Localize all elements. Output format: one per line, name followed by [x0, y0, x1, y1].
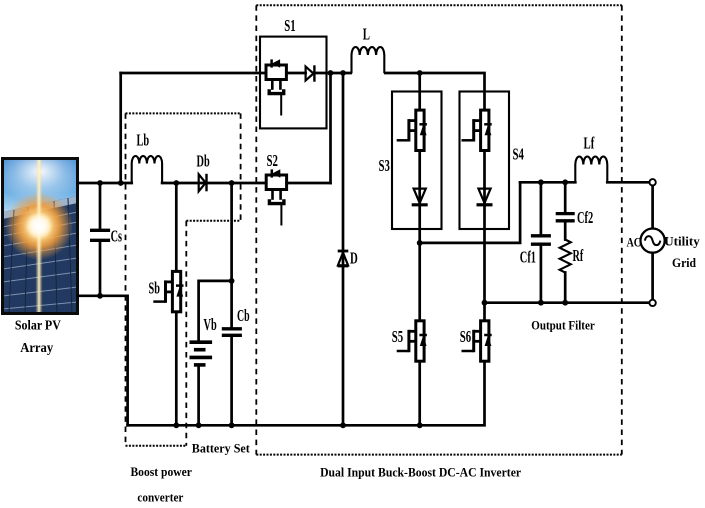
wire Cf2/Rf column [564, 182, 567, 302]
wire top rail left [121, 72, 266, 75]
transistor S5 [392, 321, 427, 361]
diode D [338, 249, 358, 268]
inductor Lb [132, 131, 162, 184]
diode Db [197, 152, 210, 192]
svg-text:Cf2: Cf2 [577, 208, 593, 227]
wire PV top rail y=183 [78, 182, 266, 185]
transistor S4 [462, 110, 492, 150]
solar PV array [3, 159, 78, 314]
node Cb bottom on ground rail [229, 422, 235, 428]
svg-text:S1: S1 [284, 16, 295, 35]
transistor S2 [266, 151, 286, 226]
svg-text:Lb: Lb [137, 131, 150, 150]
node Cf1 top [538, 179, 544, 185]
wire filter top [520, 181, 650, 184]
wire S4 node to S6 [483, 303, 486, 321]
svg-text:Vb: Vb [204, 315, 217, 334]
node Vb minus on ground rail [196, 422, 202, 428]
svg-text:converter: converter [137, 491, 183, 505]
wire riser S2 output to top rail [329, 73, 332, 183]
transistor S3 [397, 110, 427, 150]
wire bottom rail [128, 362, 485, 426]
svg-text:Db: Db [197, 152, 210, 171]
transistor Sb [149, 271, 184, 311]
svg-text:S6: S6 [460, 327, 471, 346]
wire Sb drop [175, 183, 178, 425]
svg-text:Grid: Grid [672, 255, 697, 270]
svg-text:D: D [350, 249, 358, 268]
capacitor Cf2 [556, 208, 594, 227]
svg-text:AC: AC [627, 234, 641, 249]
node Sb source on ground rail [173, 422, 179, 428]
box Dual Input inverter (dotted outline) [256, 4, 622, 6]
node Rf bottom [562, 300, 568, 306]
node S3 drain on top rail [417, 70, 423, 76]
box S3 [392, 92, 442, 230]
inductor L [352, 25, 385, 74]
svg-text:Cf1: Cf1 [520, 248, 536, 267]
capacitor Cb [222, 306, 250, 335]
diode S1 internal [306, 65, 315, 81]
diode S3 internal [412, 189, 428, 205]
node Cf1 bottom [538, 300, 544, 306]
battery Vb [190, 315, 217, 365]
svg-text:Cb: Cb [237, 306, 250, 325]
wire inside S1 box [287, 72, 351, 75]
capacitor Cs [90, 183, 122, 296]
svg-text:Utility: Utility [664, 234, 700, 249]
svg-text:Array: Array [20, 341, 53, 356]
node A phase (S3/S5) [417, 240, 423, 246]
node Cf2 top [562, 179, 568, 185]
svg-text:S3: S3 [379, 156, 390, 175]
svg-text:Cs: Cs [111, 226, 123, 245]
node D bottom on ground rail [340, 422, 346, 428]
svg-text:Boost power: Boost power [130, 465, 192, 479]
resistor Rf [560, 240, 584, 273]
wire Cf1 column [540, 182, 543, 302]
wire PV bottom to bottom rail [78, 296, 128, 426]
node PV riser junction [118, 180, 124, 186]
node Cb top junction [229, 180, 235, 186]
svg-text:Battery Set: Battery Set [192, 442, 251, 456]
svg-text:Rf: Rf [573, 246, 584, 265]
node Cs top junction [97, 180, 103, 186]
AC source [627, 229, 665, 253]
node D top on top rail [340, 70, 346, 76]
transistor S1 [266, 59, 286, 115]
terminal top [649, 179, 655, 185]
diode S4 internal [477, 189, 493, 205]
svg-text:S5: S5 [392, 327, 403, 346]
wire S3 node to S5 [418, 243, 421, 321]
wire Vb branch [199, 281, 232, 425]
capacitor Cf1 [520, 236, 551, 267]
svg-text:Solar PV: Solar PV [15, 319, 61, 334]
wire S5 to bottom rail [418, 362, 421, 426]
wire lower node to bottom terminal [485, 301, 650, 304]
wire top rail right of L with S4 drop [385, 73, 484, 110]
svg-text:Sb: Sb [149, 279, 160, 298]
node B phase (S4/S6) [482, 300, 488, 306]
svg-text:L: L [363, 25, 370, 44]
box S1 [260, 37, 327, 129]
box Boost power converter (dotted outline) [126, 112, 241, 114]
svg-text:S2: S2 [267, 151, 278, 170]
wire D branch vertical [342, 73, 345, 425]
svg-text:S4: S4 [513, 145, 525, 164]
wire Cb column [230, 183, 233, 425]
wire S4 to lower node [483, 151, 486, 303]
wire riser PV to top rail [119, 73, 122, 183]
node Sb drain junction [173, 180, 179, 186]
transistor S6 [460, 321, 492, 361]
wire AC source leads [651, 185, 654, 300]
wire segment S2 right to riser [287, 182, 331, 185]
svg-text:Output Filter: Output Filter [531, 319, 595, 333]
box Battery Set (dotted outline) [186, 220, 240, 222]
node Vb plus to Cb [229, 278, 235, 284]
node S5 source on ground rail [417, 422, 423, 428]
inductor Lf [575, 134, 607, 183]
node Cs bottom junction [97, 293, 103, 299]
node S2 output on top rail [328, 70, 334, 76]
wire S3 to node [418, 151, 421, 243]
wire node to filter riser [420, 182, 520, 243]
svg-text:Lf: Lf [584, 134, 595, 153]
terminal bottom [649, 300, 655, 306]
wire S3 drop [418, 73, 421, 110]
svg-text:Dual Input Buck-Boost DC-AC In: Dual Input Buck-Boost DC-AC Inverter [320, 466, 521, 480]
box S4 [460, 92, 510, 230]
